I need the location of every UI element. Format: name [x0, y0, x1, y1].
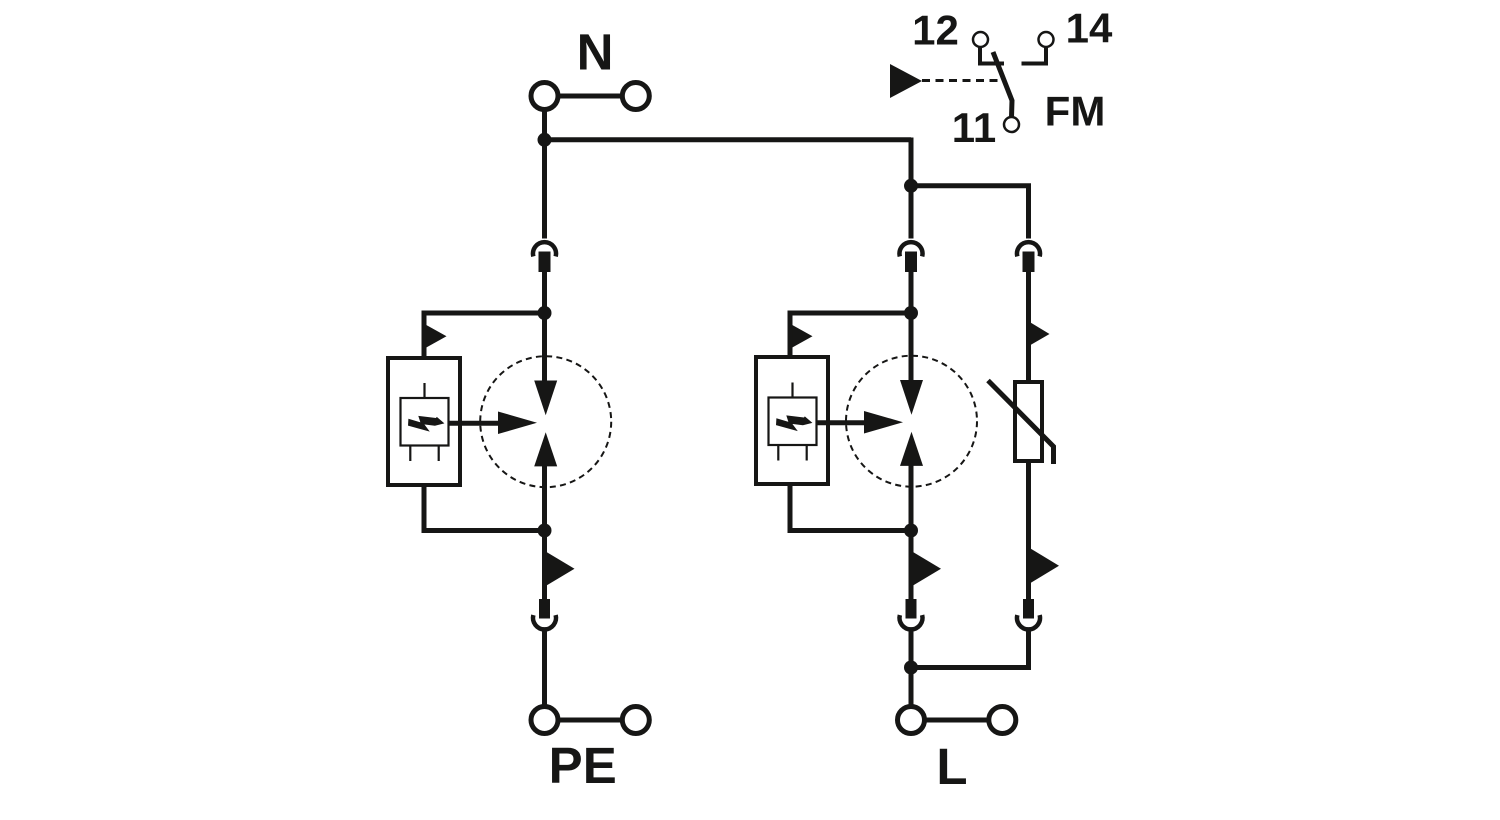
- trigger box right: [756, 357, 828, 484]
- varistor body: [1015, 382, 1042, 461]
- spark gap right top electrode: [900, 380, 923, 415]
- wire right bypass bottom run: [790, 484, 911, 531]
- node varistor rejoin: [904, 661, 918, 675]
- disconnect device right bottom (arc): [899, 615, 922, 629]
- trigger top pin left: [423, 383, 425, 398]
- arrowhead right: [864, 411, 903, 434]
- disconnect device left top (arc): [533, 242, 556, 256]
- terminal L circle right: [989, 707, 1016, 734]
- FM contact 12 lead: [980, 47, 1004, 64]
- wire right main lower: [909, 464, 914, 534]
- wire right main mid: [909, 270, 914, 383]
- wire varistor branch horizontal: [911, 186, 1029, 239]
- trigger top pin right: [791, 383, 793, 398]
- disconnect device mid top (arc): [899, 242, 922, 256]
- svg-text:14: 14: [1066, 5, 1113, 52]
- disconnect device left top (plug rect): [539, 252, 551, 273]
- disconnect device right bottom (plug rect): [906, 599, 917, 619]
- dashed circle right spark gap: [846, 356, 977, 487]
- disconnect device left bottom (plug rect): [539, 599, 550, 619]
- terminal N circle right: [622, 83, 649, 110]
- terminal L circle left: [898, 707, 925, 734]
- wire right above L disconnect: [909, 531, 914, 601]
- svg-text:N: N: [577, 24, 614, 81]
- node N junction: [538, 133, 552, 147]
- terminal PE circle left: [531, 707, 558, 734]
- indicator flag left bypass: [426, 325, 446, 348]
- svg-text:L: L: [936, 738, 967, 795]
- terminal N circle left: [531, 83, 558, 110]
- wire left bypass top run: [424, 313, 545, 358]
- trigger bottom pin left a: [409, 446, 411, 462]
- wire left bypass bottom run: [424, 485, 545, 531]
- disconnect device right top (plug rect): [1023, 252, 1035, 273]
- wire varistor branch mid: [1026, 270, 1031, 384]
- indicator flag varistor lower: [1031, 549, 1060, 584]
- indicator flag left lower: [547, 552, 575, 586]
- svg-text:11: 11: [952, 104, 996, 151]
- trigger bottom pin right a: [777, 445, 779, 461]
- FM indicator triangle: [890, 64, 922, 98]
- wire left main upper: [542, 140, 547, 239]
- indicator flag varistor top: [1031, 323, 1050, 346]
- terminal N bar: [545, 94, 636, 99]
- varistor diagonal: [988, 381, 1054, 465]
- disconnect device right top (arc): [1017, 242, 1040, 256]
- svg-text:PE: PE: [549, 737, 617, 794]
- wire varistor branch lower: [1026, 461, 1031, 600]
- node varistor branch split: [904, 179, 918, 193]
- node right bypass bottom: [904, 524, 918, 538]
- dashed circle left spark gap: [480, 356, 611, 487]
- svg-text:12: 12: [912, 6, 959, 53]
- disconnect device mid top (plug rect): [905, 252, 917, 273]
- spark gap right bottom electrode: [900, 432, 923, 466]
- trigger inner square right: [769, 398, 817, 446]
- node left bypass bottom: [538, 524, 552, 538]
- wire right branch top vertical: [909, 138, 914, 239]
- wire left main lower: [542, 464, 547, 533]
- arrowhead left: [498, 412, 537, 435]
- disconnect device varistor bottom (arc): [1017, 615, 1040, 629]
- svg-text:FM: FM: [1045, 88, 1106, 135]
- indicator flag right bypass: [792, 325, 812, 348]
- indicator flag right lower: [913, 552, 941, 586]
- FM contact circle 14: [1039, 32, 1054, 47]
- trigger inner square left: [401, 398, 449, 446]
- lightning bolt left: [408, 416, 444, 432]
- wire N stub: [542, 110, 547, 143]
- wire varistor rejoin run: [911, 631, 1029, 668]
- FM moving arm: [993, 52, 1012, 117]
- disconnect device left bottom (arc): [533, 615, 556, 629]
- lightning bolt right: [776, 415, 812, 431]
- node left bypass top: [538, 306, 552, 320]
- wire right to L: [909, 631, 914, 709]
- trigger box left: [388, 358, 460, 485]
- wire left above PE disconnect: [542, 531, 547, 601]
- terminal L bar: [911, 718, 1002, 723]
- terminal PE bar: [545, 718, 636, 723]
- spark gap left bottom electrode: [534, 432, 557, 466]
- wire right bypass top run: [790, 313, 911, 357]
- spark gap left top electrode: [534, 381, 557, 416]
- node right bypass top: [904, 306, 918, 320]
- trigger bottom pin left b: [438, 446, 440, 462]
- FM contact circle 11: [1004, 117, 1019, 132]
- FM contact circle 12: [973, 32, 988, 47]
- arrow line right trigger to gap: [817, 420, 868, 425]
- wire top horizontal N to right branch: [545, 137, 912, 142]
- wire left main mid: [542, 270, 547, 383]
- FM dashed line: [922, 79, 1001, 82]
- terminal PE circle right: [622, 707, 649, 734]
- disconnect device varistor bottom (plug rect): [1023, 599, 1034, 619]
- arrow line left trigger to gap: [449, 421, 502, 426]
- wire left to PE: [542, 631, 547, 709]
- trigger bottom pin right b: [806, 445, 808, 461]
- FM contact 14 lead: [1022, 47, 1047, 64]
